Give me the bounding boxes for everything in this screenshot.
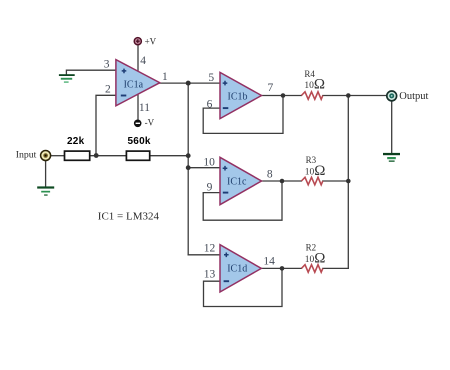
wire IC1c output pin 8 xyxy=(261,180,301,182)
wire IC1d output pin 14 xyxy=(261,267,301,269)
junction node IC1d output xyxy=(280,266,285,271)
svg-text:IC1b: IC1b xyxy=(228,91,248,102)
ground at Output xyxy=(383,153,400,162)
wire left bus vertical xyxy=(187,83,189,255)
wire pin 12 of IC1d xyxy=(188,254,220,256)
svg-text:1: 1 xyxy=(162,71,168,83)
svg-text:560k: 560k xyxy=(128,136,151,147)
svg-text:IC1a: IC1a xyxy=(124,79,144,90)
svg-text:IC1d: IC1d xyxy=(227,263,247,274)
resistor R4 xyxy=(301,92,322,100)
wire pin 4 of IC1a to +V xyxy=(137,45,139,71)
wire IC1b output pin 7 xyxy=(261,95,301,97)
wire ground to pin 3 of IC1a xyxy=(66,70,116,74)
wire R2 to right bus xyxy=(323,267,349,269)
svg-text:13: 13 xyxy=(204,269,216,281)
svg-text:10: 10 xyxy=(203,157,215,169)
wire Output terminal to ground xyxy=(391,101,393,153)
wire 560k to left bus xyxy=(150,155,189,157)
junction node IC1a output / pin 5 xyxy=(186,81,191,86)
-V power terminal xyxy=(134,120,142,128)
wire Input terminal to 22k xyxy=(51,155,65,157)
Input terminal xyxy=(41,151,51,161)
wire Input terminal to ground xyxy=(45,161,47,187)
junction node pin 10 at left bus xyxy=(186,165,191,170)
op-amp IC1d xyxy=(220,245,261,292)
svg-text:-V: -V xyxy=(145,118,155,128)
wire feedback loop IC1d output to pin 13 xyxy=(204,268,283,306)
wire pin 2 of IC1a down to 22k/560k node xyxy=(96,95,116,155)
svg-text:22k: 22k xyxy=(67,136,85,147)
wire right bus to Output terminal xyxy=(348,95,387,97)
wire R3 to right bus xyxy=(323,180,349,182)
junction node IC1c output xyxy=(280,179,285,184)
wire feedback loop IC1c output to pin 9 xyxy=(203,181,282,220)
resistor 560k xyxy=(126,151,149,160)
svg-text:2: 2 xyxy=(105,83,111,95)
junction node R4 at right bus xyxy=(346,93,351,98)
svg-text:6: 6 xyxy=(207,98,213,110)
op-amp IC1b xyxy=(220,72,262,118)
wire R4 to right bus xyxy=(323,95,349,97)
+V power terminal xyxy=(134,38,141,45)
op-amp IC1c xyxy=(220,157,262,204)
wire pin 5 of IC1b xyxy=(188,82,220,84)
svg-text:IC1 = LM324: IC1 = LM324 xyxy=(98,210,160,222)
junction node R3 at right bus xyxy=(346,179,351,184)
svg-text:Output: Output xyxy=(399,91,428,102)
svg-text:3: 3 xyxy=(104,58,110,70)
svg-text:8: 8 xyxy=(267,169,273,181)
resistor 22k xyxy=(65,151,90,160)
wire pin 11 of IC1a to -V xyxy=(137,94,139,119)
ground at Input xyxy=(37,186,54,195)
svg-text:11: 11 xyxy=(139,102,150,114)
junction node 560k at left bus xyxy=(186,153,191,158)
svg-text:4: 4 xyxy=(140,55,146,67)
resistor R3 xyxy=(301,177,322,185)
wire feedback loop IC1b output to pin 6 xyxy=(203,96,283,134)
svg-text:7: 7 xyxy=(268,82,274,94)
wire right bus vertical xyxy=(347,96,349,269)
wire pin 10 of IC1c xyxy=(188,167,220,169)
op-amp IC1a xyxy=(116,60,160,106)
svg-text:IC1c: IC1c xyxy=(227,177,247,188)
wire IC1a output pin 1 to left bus xyxy=(159,82,188,84)
junction node 22k / 560k / pin 2 xyxy=(94,153,99,158)
svg-text:5: 5 xyxy=(208,72,214,84)
wire 22k to 560k xyxy=(90,155,127,157)
Output terminal xyxy=(387,91,397,101)
svg-text:14: 14 xyxy=(263,255,275,267)
svg-text:Input: Input xyxy=(16,149,37,160)
junction node IC1b output xyxy=(281,93,286,98)
svg-text:9: 9 xyxy=(207,181,213,193)
resistor R2 xyxy=(301,265,322,273)
svg-text:+V: +V xyxy=(145,36,157,46)
svg-text:12: 12 xyxy=(204,243,216,255)
ground at IC1a pin 3 xyxy=(59,74,75,83)
